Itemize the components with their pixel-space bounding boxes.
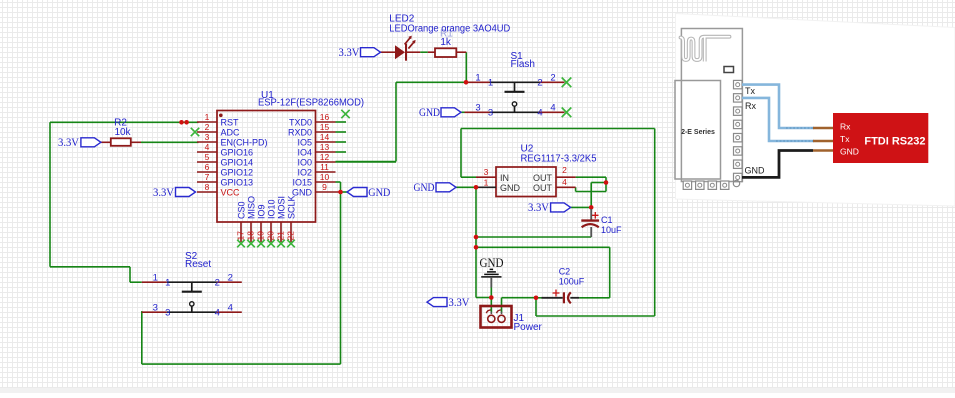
svg-text:13: 13 [320, 142, 330, 152]
svg-text:Rx: Rx [745, 101, 756, 111]
wire U2 OUT loop to 3.3V and C1 [571, 177, 606, 207]
svg-text:Tx: Tx [840, 134, 850, 144]
LED LED2 (LEDOrange orange 3AO4UD) [381, 14, 511, 61]
wire U1 pin10 IO15 corner to pin9 junction [336, 182, 341, 192]
svg-text:3: 3 [165, 307, 170, 318]
svg-text:IN: IN [500, 173, 509, 183]
supply flag 3.3V at LED2 [339, 47, 381, 59]
svg-text:9: 9 [322, 182, 327, 192]
svg-text:2-E Series: 2-E Series [681, 129, 715, 136]
svg-text:3.3V: 3.3V [528, 202, 550, 214]
photo: ESP module outline [675, 29, 765, 190]
svg-text:5: 5 [205, 152, 210, 162]
supply flag GND at U1 pin9 [347, 187, 390, 199]
junction dot at S1 pin1 [464, 80, 469, 85]
svg-text:18: 18 [246, 231, 256, 241]
svg-text:21: 21 [276, 231, 286, 241]
svg-text:11: 11 [320, 162, 329, 172]
svg-text:GND: GND [414, 182, 435, 194]
svg-text:3.3V: 3.3V [449, 297, 471, 309]
svg-text:GPIO14: GPIO14 [221, 158, 254, 168]
switch S2 Reset [142, 251, 242, 319]
photo: blue Tx wire [742, 85, 814, 128]
svg-text:IO2: IO2 [297, 168, 312, 178]
svg-text:C1: C1 [601, 215, 613, 225]
ground symbol GND [480, 255, 504, 298]
svg-text:10uF: 10uF [601, 225, 622, 235]
svg-text:3: 3 [488, 108, 493, 119]
svg-text:Tx: Tx [745, 86, 755, 96]
svg-text:GPIO16: GPIO16 [221, 148, 254, 158]
supply flag 3.3V at U1 pin8 VCC [153, 187, 196, 199]
capacitor C2 100uF [542, 267, 585, 304]
svg-text:10k: 10k [114, 127, 131, 138]
svg-text:3.3V: 3.3V [153, 187, 175, 199]
svg-text:ADC: ADC [221, 128, 241, 138]
svg-text:10: 10 [320, 172, 330, 182]
wire LED to R1 [420, 51, 428, 53]
svg-text:OUT: OUT [533, 173, 553, 183]
junction dot U1 pin9 GND [338, 190, 343, 195]
junction dot U2 GND pin [474, 185, 479, 190]
wire net S2 pin3 to U1 GND junction [142, 192, 341, 364]
svg-text:IO9: IO9 [257, 204, 267, 219]
wire net EN: R2 to U1 pin3 [141, 141, 199, 143]
svg-text:Power: Power [514, 322, 543, 333]
wire J1 pins and to C2 [491, 298, 541, 314]
svg-text:2: 2 [562, 165, 567, 175]
svg-text:3.3V: 3.3V [58, 137, 80, 149]
switch S1 Flash [465, 51, 565, 119]
svg-text:EN(CH-PD): EN(CH-PD) [221, 138, 268, 148]
svg-text:LEDOrange orange 3AO4UD: LEDOrange orange 3AO4UD [389, 23, 510, 34]
supply flag 3.3V at U2 OUT [528, 202, 571, 214]
svg-text:TXD0: TXD0 [289, 118, 312, 128]
svg-text:19: 19 [256, 231, 266, 241]
svg-text:RST: RST [221, 118, 240, 128]
svg-text:VCC: VCC [221, 188, 241, 198]
svg-text:IO15: IO15 [292, 178, 312, 188]
wire GND net column at U2 [456, 187, 610, 297]
junction dot 3.3V / C1 [589, 205, 594, 210]
svg-text:1: 1 [475, 73, 480, 84]
FTDI wiring photo background [676, 14, 955, 207]
svg-text:GPIO13: GPIO13 [221, 178, 254, 188]
junction dot OUT loop [604, 180, 609, 185]
no-connect X S1 pin2 [562, 78, 572, 88]
svg-text:4: 4 [228, 302, 233, 313]
svg-text:Rx: Rx [840, 122, 851, 132]
wire input power net: big loop to U2 IN [461, 129, 655, 317]
svg-text:4: 4 [537, 108, 542, 119]
svg-text:7: 7 [205, 172, 210, 182]
svg-text:GND: GND [745, 166, 766, 176]
supply flag GND at S1 pin3 [419, 107, 461, 119]
junction dot at J1 pin2 / C2 [534, 296, 539, 301]
connector J1 Power [481, 306, 543, 333]
svg-text:IO10: IO10 [267, 199, 277, 219]
svg-text:8: 8 [205, 182, 210, 192]
junction dots GND column [474, 235, 479, 250]
supply flag GND at U2 pin1 [414, 182, 457, 194]
svg-text:ESP-12F(ESP8266MOD): ESP-12F(ESP8266MOD) [258, 98, 364, 109]
svg-text:4: 4 [562, 177, 567, 187]
svg-text:12: 12 [320, 152, 330, 162]
svg-text:2: 2 [215, 277, 220, 288]
svg-text:REG1117-3.3/2K5: REG1117-3.3/2K5 [521, 154, 597, 165]
svg-text:C2: C2 [559, 267, 571, 277]
svg-text:3: 3 [153, 302, 158, 313]
svg-text:GND: GND [480, 255, 504, 270]
svg-text:IO5: IO5 [297, 138, 312, 148]
svg-text:4: 4 [215, 307, 220, 318]
svg-text:4: 4 [205, 142, 210, 152]
svg-text:OUT: OUT [533, 183, 553, 193]
svg-text:GND: GND [419, 107, 440, 119]
svg-text:16: 16 [320, 112, 330, 122]
capacitor C1 10uF [581, 209, 622, 237]
svg-text:2: 2 [205, 122, 210, 132]
svg-text:GND: GND [840, 147, 859, 157]
supply flag 3.3V at R2 [58, 137, 101, 149]
svg-text:GND: GND [368, 187, 390, 199]
svg-text:1: 1 [488, 78, 493, 89]
svg-text:GPIO12: GPIO12 [221, 168, 254, 178]
junction dot GND at J1 pin1 [489, 295, 494, 300]
svg-text:3: 3 [475, 103, 480, 114]
svg-text:IO0: IO0 [297, 158, 312, 168]
photo: blue Rx wire [742, 98, 814, 141]
svg-text:22: 22 [286, 231, 296, 241]
op-amp U1 ESP-12F(ESP8266MOD) module [191, 90, 396, 247]
wire net IO0/Flash: resistor R1 down to junction, to S1 pin1 and U1 pin12 [336, 52, 467, 161]
resistor R2 10k [101, 118, 141, 146]
svg-text:GND: GND [500, 183, 521, 193]
voltage regulator U2 REG1117-3.3/2K5 [476, 144, 597, 197]
svg-text:Reset: Reset [185, 259, 211, 270]
photo: black GND wire [742, 151, 813, 178]
svg-text:14: 14 [320, 132, 330, 142]
svg-text:1: 1 [165, 277, 170, 288]
svg-text:3: 3 [205, 132, 210, 142]
svg-text:CS0: CS0 [237, 201, 247, 219]
svg-text:MOSI: MOSI [277, 196, 287, 219]
svg-text:6: 6 [205, 162, 210, 172]
svg-text:1: 1 [153, 272, 158, 283]
svg-text:MISO: MISO [247, 196, 257, 219]
svg-text:SCLK: SCLK [287, 195, 297, 219]
svg-text:3: 3 [484, 167, 489, 177]
junction dots near U1 pin1 [179, 120, 189, 125]
svg-text:20: 20 [266, 231, 276, 241]
svg-text:4: 4 [550, 103, 555, 114]
wire net RST: U1 pin1 to S2 pin1 [50, 122, 199, 282]
photo: FTDI RS232 red box [833, 113, 928, 163]
svg-text:1: 1 [484, 177, 489, 187]
no-connect X S1 pin4 [562, 108, 572, 118]
resistor R1 1k [428, 37, 467, 57]
svg-text:2: 2 [537, 78, 542, 89]
svg-text:IO4: IO4 [297, 148, 312, 158]
svg-text:Flash: Flash [511, 59, 535, 70]
svg-text:FTDI RS232: FTDI RS232 [864, 135, 925, 147]
svg-text:17: 17 [236, 231, 246, 241]
svg-text:1: 1 [205, 112, 210, 122]
svg-text:2: 2 [550, 73, 555, 84]
photo: brown stubs into FTDI [813, 128, 833, 151]
svg-text:RXD0: RXD0 [288, 128, 312, 138]
svg-text:100uF: 100uF [559, 276, 585, 286]
svg-text:1k: 1k [440, 37, 452, 48]
supply flag 3.3V floating near J1 [427, 297, 470, 309]
svg-text:2: 2 [228, 272, 233, 283]
svg-text:3.3V: 3.3V [339, 47, 361, 59]
wire S1 pin3 to GND flag [461, 111, 465, 113]
svg-text:15: 15 [320, 122, 330, 132]
